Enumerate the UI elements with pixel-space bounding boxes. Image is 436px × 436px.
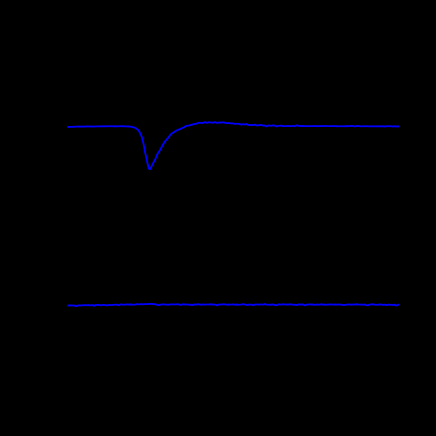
bottom curve: flat reference trace with small bump near x=150 [67,304,399,306]
top curve: transmission trace with resonance dip near x=150 [67,122,399,169]
